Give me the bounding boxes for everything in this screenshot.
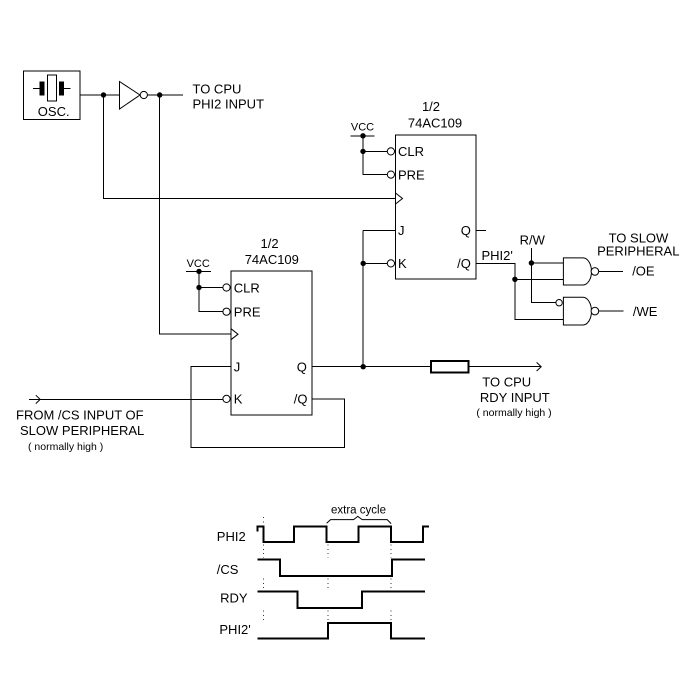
wire junction to K bubble (U2): [363, 262, 387, 264]
clock triangle (U3): [231, 329, 238, 340]
svg-text:J: J: [398, 223, 405, 238]
crystal symbol inside OSC1: [33, 75, 71, 101]
wire /Q (U2) to NAND inputs, net PHI2': [476, 263, 563, 319]
svg-text:CLR: CLR: [398, 144, 424, 159]
pin bubble K (U2): [387, 260, 394, 267]
svg-text:Q: Q: [461, 223, 471, 238]
svg-text:( normally high ): ( normally high ): [476, 407, 551, 419]
wire /CS input to K (U3): [29, 398, 223, 400]
svg-text:1/2: 1/2: [261, 236, 279, 251]
svg-text:FROM /CS INPUT OF: FROM /CS INPUT OF: [16, 408, 144, 423]
label FROM /CS INPUT OF SLOW PERIPHERAL: [16, 408, 144, 453]
pin bubble CLR (U3): [223, 284, 230, 291]
nand gate U4A: [563, 258, 591, 285]
svg-text:PHI2 INPUT: PHI2 INPUT: [193, 97, 265, 112]
wire R/W vertical: [531, 248, 555, 303]
flip-flop U2 (upper 74AC109) box: [396, 135, 477, 279]
svg-text:SLOW PERIPHERAL: SLOW PERIPHERAL: [20, 423, 144, 438]
svg-text:1/2: 1/2: [422, 99, 440, 114]
wire junction down then right to upper FF clock: [104, 95, 396, 199]
pin bubble PRE (U3): [223, 308, 230, 315]
output bubble U4A: [591, 268, 599, 276]
pin bubble CLR (U2): [387, 148, 394, 155]
label TO SLOW PERIPHERAL: [597, 230, 679, 258]
nand gate U4B: [563, 297, 591, 325]
clock triangle (U2): [396, 193, 403, 204]
wire VCC to CLR and PRE (U2): [363, 136, 388, 175]
wire junction to CLR bubble (U2): [363, 150, 388, 152]
oscillator OSC1 box: [24, 71, 81, 120]
svg-text:VCC: VCC: [187, 258, 210, 270]
pin bubble K (U3): [223, 395, 230, 402]
svg-text:PHI2: PHI2: [217, 529, 246, 544]
svg-text:K: K: [234, 392, 243, 407]
svg-text:PRE: PRE: [398, 168, 425, 183]
pin bubble PRE (U2): [387, 171, 394, 178]
arrowhead on /CS input: [36, 395, 40, 403]
dotted guide line at first PHI2 falling edge: [263, 517, 265, 622]
svg-text:/OE: /OE: [632, 263, 655, 278]
svg-text:RDY INPUT: RDY INPUT: [480, 390, 550, 405]
svg-text:TO CPU: TO CPU: [193, 82, 242, 97]
node junction at U2 K tap: [361, 261, 366, 266]
svg-text:PHI2': PHI2': [482, 248, 513, 263]
wire vertical bus J/K down to Q of U3: [362, 230, 364, 366]
wire R/W junction to NAND U4A upper input: [531, 262, 563, 264]
flip-flop U3 (lower 74AC109) box: [231, 271, 312, 415]
svg-text:Q: Q: [297, 360, 307, 375]
wire /Q feedback loop to J (U3): [191, 367, 345, 448]
svg-text:74AC109: 74AC109: [245, 252, 299, 267]
node junction after OSC: [101, 92, 106, 97]
dotted guide line at extra cycle start: [327, 545, 329, 622]
output bubble U4B: [591, 307, 599, 315]
wire inverter output: [147, 94, 183, 96]
arrowhead to CPU RDY: [537, 362, 542, 371]
node junction at U2 CLR: [360, 149, 365, 154]
wire Q output (U3) to resistor: [312, 366, 431, 368]
node junction at U3 CLR: [196, 285, 201, 290]
svg-text:RDY: RDY: [220, 590, 248, 605]
waveform RDY: [258, 592, 426, 608]
svg-text:74AC109: 74AC109: [408, 116, 462, 131]
svg-text:OSC.: OSC.: [38, 104, 70, 119]
brace for extra cycle: [327, 516, 392, 523]
waveform PHI2': [258, 623, 426, 639]
inverter U1: [120, 82, 148, 110]
wire resistor to CPU RDY arrow: [469, 366, 541, 368]
svg-text:extra cycle: extra cycle: [331, 504, 386, 516]
wire inverter junction down then right to lower FF clock: [160, 95, 231, 334]
svg-text:PERIPHERAL: PERIPHERAL: [597, 244, 679, 259]
svg-text:VCC: VCC: [351, 122, 374, 134]
node junction on PHI2' net: [512, 277, 517, 282]
dotted guide line at extra cycle end: [390, 545, 392, 622]
wire Q stub (U2): [476, 229, 486, 231]
svg-text:CLR: CLR: [234, 280, 260, 295]
node junction R/W to U4A: [529, 260, 534, 265]
svg-text:/WE: /WE: [633, 304, 658, 319]
waveform PHI2: [258, 526, 429, 542]
svg-text:/CS: /CS: [217, 562, 239, 577]
node junction Q to vertical bus: [361, 364, 366, 369]
wire junction to CLR bubble (U3): [199, 287, 223, 289]
svg-text:TO CPU: TO CPU: [482, 375, 531, 390]
input bubble U4B (R/W inverted input): [556, 300, 562, 306]
svg-text:K: K: [398, 256, 407, 271]
wire U4B output to /WE: [598, 310, 623, 312]
svg-text:R/W: R/W: [520, 233, 546, 248]
label TO CPU PHI2 INPUT: [193, 82, 265, 112]
svg-text:/Q: /Q: [457, 256, 471, 271]
svg-text:PHI2': PHI2': [219, 622, 250, 637]
svg-text:J: J: [234, 360, 241, 375]
wire U4A output to /OE: [598, 270, 623, 272]
power VCC symbol (upper): [351, 122, 375, 139]
wire U2 J input from vertical bus: [363, 229, 395, 231]
svg-text:/Q: /Q: [294, 392, 308, 407]
timing diagram labels: [217, 529, 251, 637]
label TO CPU RDY INPUT: [476, 375, 551, 419]
svg-text:( normally high ): ( normally high ): [28, 441, 103, 453]
node junction after inverter: [157, 92, 162, 97]
resistor R1: [431, 361, 469, 372]
power VCC symbol (lower): [186, 258, 211, 274]
waveform /CS: [258, 560, 426, 576]
wire VCC to CLR and PRE (U3): [199, 271, 223, 311]
svg-text:PRE: PRE: [234, 305, 261, 320]
wire PHI2' junction to NAND U4A lower input: [515, 278, 564, 280]
wire OSC output to inverter input: [80, 94, 120, 96]
